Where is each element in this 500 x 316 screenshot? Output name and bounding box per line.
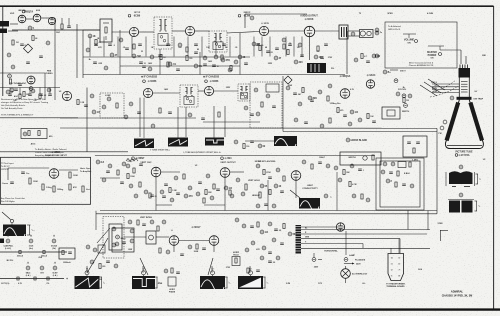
fan to CRT xyxy=(420,85,437,96)
svg-text:1 Meg: 1 Meg xyxy=(46,187,52,189)
pilot lamp node xyxy=(312,258,316,262)
capacitor C28 xyxy=(256,269,260,271)
svg-text:AC INTERLOCK: AC INTERLOCK xyxy=(352,273,368,276)
wire w2 feed xyxy=(142,266,144,273)
svg-text:+: + xyxy=(66,277,68,281)
test point S43 xyxy=(47,88,51,92)
svg-text:To Build a Better - Radio Tail: To Build a Better - Radio Tailored, xyxy=(35,148,67,151)
resistor S50 xyxy=(302,88,304,93)
test point TP37 xyxy=(108,164,112,168)
resistor S74 xyxy=(169,188,171,193)
capacitor C20 xyxy=(10,181,14,183)
test point F4 xyxy=(150,220,154,224)
capacitor S92 xyxy=(358,168,362,170)
svg-text:(3d): (3d) xyxy=(52,248,56,250)
tube V3 1st IF xyxy=(129,27,138,36)
wire drop D4 xyxy=(145,37,147,57)
test point S47 xyxy=(92,110,96,114)
test point S51 xyxy=(308,96,312,100)
svg-text:⊙ 6DB6: ⊙ 6DB6 xyxy=(52,151,61,154)
svg-text:PL#44/47A: PL#44/47A xyxy=(355,259,366,262)
capacitor C17 xyxy=(310,99,314,101)
test point TP8 xyxy=(234,60,238,64)
test point S77 xyxy=(196,192,200,196)
capacitor C11 xyxy=(324,43,328,45)
tube V9 4th IF xyxy=(204,86,213,95)
capacitor E0a xyxy=(8,93,12,95)
capacitor E11 xyxy=(264,203,268,205)
wire if vert v1 xyxy=(119,30,121,75)
svg-text:6BQ7A: 6BQ7A xyxy=(25,11,34,14)
svg-text:¹⁄₂: ¹⁄₂ xyxy=(266,282,268,285)
wire band5 links xyxy=(313,253,315,257)
wire AGC diag xyxy=(290,190,300,198)
test point G3 xyxy=(10,88,14,92)
CRT face line xyxy=(447,145,482,147)
tube V8 3rd IF xyxy=(143,88,152,97)
resistor S1 xyxy=(95,40,97,45)
resistor S15 xyxy=(186,56,188,61)
svg-text:PM: PM xyxy=(439,133,442,135)
svg-text:ON: ON xyxy=(407,42,411,44)
test point TP33 xyxy=(294,118,298,122)
wire V5 to V6 xyxy=(269,30,305,32)
svg-text:12AU7: 12AU7 xyxy=(319,156,325,159)
svg-text:82: 82 xyxy=(197,49,199,51)
svg-text:To Amplifier: To Amplifier xyxy=(80,170,92,173)
svg-text:82K: 82K xyxy=(313,97,318,100)
wire horiz bus2 xyxy=(283,131,437,133)
resistor R17 xyxy=(69,184,71,190)
capacitor C13 xyxy=(168,111,172,113)
test point TP43 xyxy=(206,174,210,178)
test point S73 xyxy=(160,190,164,194)
svg-text:.25A: .25A xyxy=(38,256,43,259)
deflection yoke right winding xyxy=(470,103,482,141)
test point S9 xyxy=(132,54,136,58)
capacitor D3 xyxy=(166,43,170,45)
label yoke upper xyxy=(476,173,479,175)
test point S60 xyxy=(396,92,400,96)
resistor S94 xyxy=(349,182,351,187)
svg-text:this Rule Actually Exists.: this Rule Actually Exists. xyxy=(1,104,26,107)
capacitor S72 xyxy=(150,194,154,196)
test point S37 xyxy=(372,54,376,58)
test point TP49 xyxy=(130,229,134,233)
svg-text:PIN8: PIN8 xyxy=(98,279,102,281)
capacitor C22 xyxy=(164,183,168,185)
test point S62 xyxy=(408,94,412,98)
svg-text:⊙ 6DQ6A: ⊙ 6DQ6A xyxy=(340,75,351,78)
svg-text:AGC: AGC xyxy=(14,95,19,98)
right col boxes inner xyxy=(380,161,420,207)
svg-text:OSC: OSC xyxy=(56,32,61,34)
svg-text:⊙ 6CB6: ⊙ 6CB6 xyxy=(148,80,157,83)
resistor S105 xyxy=(99,264,101,269)
resistor G2 xyxy=(9,79,11,84)
capacitor S79 xyxy=(216,188,220,190)
svg-text:3.9: 3.9 xyxy=(261,45,264,47)
svg-text:HORIZ BLANK: HORIZ BLANK xyxy=(351,139,368,142)
svg-text:⊙ 6CB6: ⊙ 6CB6 xyxy=(210,80,219,83)
svg-text:240V: 240V xyxy=(356,263,361,266)
tube V14 vert out xyxy=(220,168,230,178)
svg-text:Chassis ADMIRAL KL2 18: Chassis ADMIRAL KL2 18 xyxy=(409,64,434,67)
tube V11 damper xyxy=(366,80,374,88)
capacitor box HV xyxy=(403,136,427,157)
svg-text:270V: 270V xyxy=(328,57,333,59)
svg-text:NOTE(S):: NOTE(S): xyxy=(1,283,10,285)
wire lamp link xyxy=(345,278,347,283)
test point S8 xyxy=(110,53,114,57)
svg-text:WIDTH: WIDTH xyxy=(348,157,356,159)
svg-text:100K: 100K xyxy=(130,176,135,178)
test point E12 xyxy=(272,204,276,208)
CRT pin fan lines xyxy=(432,83,459,85)
test point TP25 xyxy=(254,88,258,92)
svg-text:100K: 100K xyxy=(33,181,38,183)
resistor S45 xyxy=(77,100,79,105)
AGC blob T11 xyxy=(299,198,320,209)
svg-text:¹⁄₂: ¹⁄₂ xyxy=(330,196,332,199)
capacitor F3 xyxy=(142,223,146,225)
wire band3 vert right xyxy=(436,129,438,214)
svg-text:68: 68 xyxy=(265,47,267,49)
capacitor S49 xyxy=(293,92,297,94)
test point S38 xyxy=(6,90,10,94)
capacitor S14 xyxy=(176,68,180,70)
resistor R9 xyxy=(218,112,220,117)
test point S76 xyxy=(184,194,188,198)
test point TP28 xyxy=(394,79,398,83)
test point TP10 xyxy=(228,68,232,72)
svg-text:SYNC: SYNC xyxy=(127,161,133,163)
resistor R10 xyxy=(261,102,263,107)
wire V3 plate xyxy=(139,31,154,33)
svg-text:12Meg: 12Meg xyxy=(57,189,64,191)
svg-text:VERT HOLD: VERT HOLD xyxy=(248,180,261,182)
svg-text:B2 FIL: B2 FIL xyxy=(7,260,14,262)
test point TP52 xyxy=(166,250,170,254)
sine blob T12 xyxy=(3,225,26,237)
test point S97 xyxy=(268,222,272,226)
svg-text:VERT OUTPUT: VERT OUTPUT xyxy=(220,162,236,164)
vert int circles xyxy=(112,227,116,231)
test point TP32 xyxy=(298,102,302,106)
svg-text:140V: 140V xyxy=(164,88,169,91)
resistor R16 xyxy=(69,172,71,178)
wire drop D0 xyxy=(89,37,91,57)
audio output transformer blob T4 xyxy=(307,63,326,73)
test point TP35 xyxy=(348,122,352,126)
resistor F6 xyxy=(157,226,159,231)
cluster mid right xyxy=(381,170,385,174)
vert int dashed box xyxy=(103,217,124,259)
tube V17 vert mult B xyxy=(209,236,219,246)
svg-text:⊙: ⊙ xyxy=(7,235,9,238)
wire drop E2 xyxy=(29,88,31,94)
svg-text:⊙ 6S4: ⊙ 6S4 xyxy=(225,157,233,160)
capacitor C4 xyxy=(125,47,129,49)
wire yoke line2 xyxy=(301,233,427,235)
wire tuner vert B xyxy=(76,24,78,78)
resistor D20 xyxy=(61,24,63,29)
scope blob W1 xyxy=(75,276,100,289)
wire IF cathode bus xyxy=(83,56,250,58)
resistor F2 xyxy=(137,220,139,225)
svg-text:12: 12 xyxy=(144,63,146,65)
resistor R13 xyxy=(29,178,31,184)
right col boxes outer xyxy=(376,158,424,210)
svg-text:AGC: AGC xyxy=(31,143,36,146)
svg-text:(L.A.): (L.A.) xyxy=(53,274,58,277)
wire V6 plate to T3 xyxy=(315,30,339,32)
svg-text:.02: .02 xyxy=(273,262,276,264)
wire band2 bus xyxy=(60,117,196,119)
diagonal V16 to blob xyxy=(140,258,148,275)
svg-text:8Meg: 8Meg xyxy=(121,238,127,240)
wire band2 vert b xyxy=(185,107,187,137)
svg-text:02: 02 xyxy=(271,52,273,54)
wire tuner bottom xyxy=(0,72,45,74)
deflection yoke left winding xyxy=(447,103,459,141)
sine generator feed diagonal xyxy=(2,212,11,220)
svg-text:220: 220 xyxy=(299,61,304,64)
svg-text:2ND: 2ND xyxy=(482,55,486,57)
screen blob T9 xyxy=(205,138,224,146)
test point TP47 xyxy=(324,194,328,198)
capacitor D1 xyxy=(108,43,112,45)
svg-text:(L.A.): (L.A.) xyxy=(26,274,31,277)
right column box corner xyxy=(440,230,448,232)
control box outline xyxy=(385,22,457,68)
test point TP17 xyxy=(107,97,111,101)
wire T5 to V9 xyxy=(198,90,204,92)
test point S13 xyxy=(168,62,172,66)
svg-text:CHASSIS 14YP3D, 3K, 3M: CHASSIS 14YP3D, 3K, 3M xyxy=(442,295,473,298)
svg-text:CONDUCTIVITY: CONDUCTIVITY xyxy=(302,188,318,190)
wire top link xyxy=(301,226,345,228)
svg-text:6CB6: 6CB6 xyxy=(134,15,141,18)
svg-text:PICTURE TUBE: PICTURE TUBE xyxy=(456,152,473,154)
capacitor S58 xyxy=(372,120,376,122)
test point TP30 xyxy=(404,104,408,108)
test point S67 xyxy=(96,160,100,164)
test point S69 xyxy=(122,162,126,166)
wire V4 plate xyxy=(195,30,209,32)
svg-text:Vert: Vert xyxy=(86,188,90,191)
svg-text:1 TUBE SHUNT WILL: 1 TUBE SHUNT WILL xyxy=(150,150,171,152)
test point TP27 xyxy=(256,112,260,116)
test point TP50 xyxy=(130,239,134,243)
resistor S20 xyxy=(230,66,232,71)
svg-text:PHASE: PHASE xyxy=(169,290,176,293)
test point S52 xyxy=(328,84,332,88)
svg-text:On Volt Actually Exist.: On Volt Actually Exist. xyxy=(1,107,23,110)
svg-text:6BQ7A: 6BQ7A xyxy=(18,9,26,12)
wire blob connect xyxy=(245,140,274,142)
scope blob W3 xyxy=(200,276,225,289)
test point S55 xyxy=(350,110,354,114)
test point S100 xyxy=(288,232,292,236)
svg-text:GRN: GRN xyxy=(305,237,310,239)
video IF transformer T6 xyxy=(238,84,250,101)
capacitor S98 xyxy=(274,228,278,230)
capacitor C2 xyxy=(26,61,30,63)
svg-text:B BLK: B BLK xyxy=(404,173,410,175)
svg-text:Run D.B Higher: Run D.B Higher xyxy=(1,201,15,203)
resistor S53 xyxy=(337,108,339,113)
resistor R21 xyxy=(183,174,185,179)
svg-text:KEYED: KEYED xyxy=(255,161,262,163)
volume pot xyxy=(282,38,286,42)
tube V12 sync xyxy=(49,169,59,179)
svg-text:ADMIRAL: ADMIRAL xyxy=(451,290,464,294)
test point E15 xyxy=(302,160,306,164)
test point TP18 xyxy=(102,105,106,109)
svg-text:6◦: 6◦ xyxy=(399,264,401,266)
wire yoke line1 xyxy=(301,229,430,231)
test point TP51 xyxy=(188,245,192,249)
svg-text:.047: .047 xyxy=(13,99,17,102)
capacitor C21 xyxy=(120,181,124,183)
svg-text:140V: 140V xyxy=(148,62,153,65)
resistor S40 xyxy=(23,92,25,97)
tube V2 RF amp xyxy=(33,14,41,22)
resistor S90 xyxy=(343,170,345,175)
speaker conn box xyxy=(112,228,134,252)
test point S63 xyxy=(234,140,238,144)
svg-text:L TUBE ADJUSTMENT OFFSET WILL: L TUBE ADJUSTMENT OFFSET WILL A xyxy=(183,151,221,154)
wire V16 V17 xyxy=(179,240,209,242)
test point TPa xyxy=(375,28,379,32)
test point S2 xyxy=(86,48,90,52)
scope blob W2 xyxy=(132,276,155,289)
svg-text:.05: .05 xyxy=(44,95,47,97)
tube V20 osc xyxy=(48,17,55,24)
svg-text:HORIZONTAL: HORIZONTAL xyxy=(324,250,338,253)
filament row 2 sockets xyxy=(26,266,30,270)
svg-text:.05: .05 xyxy=(235,47,238,49)
wire drop D1 xyxy=(103,37,105,57)
resistor R18 xyxy=(82,186,84,192)
svg-text:470: 470 xyxy=(340,109,343,112)
wire drop D14 xyxy=(293,37,295,57)
tube V5 sound IF xyxy=(259,26,268,35)
test point TP45 xyxy=(241,192,245,196)
sync sep inner box xyxy=(266,84,279,92)
CRT base cap xyxy=(459,68,471,78)
test point S103 xyxy=(260,230,264,234)
test point S21 xyxy=(238,55,242,59)
capacitor C6 xyxy=(194,51,198,53)
resistor S64 xyxy=(243,144,245,149)
hold control xyxy=(232,257,240,266)
wire T2 to V5 xyxy=(227,32,259,34)
wire drop E0 xyxy=(9,88,11,94)
diamond node B xyxy=(284,76,292,84)
resistor S99 xyxy=(283,224,285,229)
svg-text:270V: 270V xyxy=(226,267,231,269)
wire E13 xyxy=(156,204,172,206)
border frame left xyxy=(2,6,4,96)
resistor E1 xyxy=(149,193,151,198)
wire drop E3 xyxy=(39,88,41,94)
svg-text:140V: 140V xyxy=(208,60,213,63)
left edge mark xyxy=(0,239,4,244)
resistor R27 xyxy=(247,268,249,273)
tube V10 horiz out xyxy=(340,89,350,99)
wire volume arm xyxy=(408,34,410,38)
resistor E4 xyxy=(203,198,205,203)
capacitor E1a xyxy=(28,93,32,95)
wire drop D3 xyxy=(131,37,133,57)
resistor E6 xyxy=(229,190,231,195)
test point TP6 xyxy=(178,43,182,47)
screen blob T8 xyxy=(168,138,188,147)
svg-text:B500mA: B500mA xyxy=(63,261,71,264)
resistor R15 xyxy=(53,186,55,192)
svg-text:¹⁄₂: ¹⁄₂ xyxy=(103,282,105,285)
capacitor S109 xyxy=(268,260,272,262)
wire drop D6 xyxy=(187,37,189,57)
svg-text:10: 10 xyxy=(289,43,291,45)
capacitor S65 xyxy=(250,140,254,142)
wire band2 bus2 xyxy=(203,121,260,123)
svg-text:HEIGHT: HEIGHT xyxy=(252,195,261,197)
capacitor C16 xyxy=(272,105,276,107)
test point S32 xyxy=(314,55,318,59)
svg-text:120: 120 xyxy=(33,100,36,102)
svg-text:FOCUS: FOCUS xyxy=(398,89,406,91)
wire audio vert xyxy=(346,31,348,74)
tuner antenna input xyxy=(0,21,9,27)
wire w3 feed xyxy=(211,266,213,273)
svg-text:03: 03 xyxy=(155,196,157,198)
resistor R11 xyxy=(327,96,329,101)
svg-text:G1: G1 xyxy=(434,85,437,87)
test point TP54 xyxy=(251,241,255,245)
svg-text:WIDTH: WIDTH xyxy=(402,111,410,113)
resistor E8 xyxy=(133,168,135,173)
svg-text:.1: .1 xyxy=(363,170,365,172)
test point S81 xyxy=(230,194,234,198)
wire audio vert2 xyxy=(309,37,311,60)
label yoke lower xyxy=(475,200,478,202)
wire band2 conn xyxy=(86,88,88,152)
svg-text:5◦: 5◦ xyxy=(399,258,401,260)
test point TP14 xyxy=(383,70,387,74)
svg-text:47K: 47K xyxy=(73,186,77,189)
svg-text:Comm: Comm xyxy=(2,183,8,185)
test point S34 xyxy=(354,58,358,62)
svg-text:SPKR: SPKR xyxy=(387,13,393,15)
wire band3 vert f xyxy=(224,177,226,210)
wire sync grid xyxy=(8,167,49,169)
test point E21 xyxy=(366,198,370,202)
test point TP13 xyxy=(298,43,302,47)
test point TPb xyxy=(375,54,379,58)
resistor R6 xyxy=(317,46,319,51)
resistor R22 xyxy=(213,184,215,189)
capacitor C7 xyxy=(93,61,97,63)
svg-text:.5: .5 xyxy=(113,45,115,47)
svg-text:47K: 47K xyxy=(226,59,231,62)
IF transformer T1 xyxy=(154,17,172,49)
tube V6 audio out xyxy=(304,26,314,36)
test point TP3 xyxy=(46,41,50,45)
capacitor S54 xyxy=(343,114,347,116)
